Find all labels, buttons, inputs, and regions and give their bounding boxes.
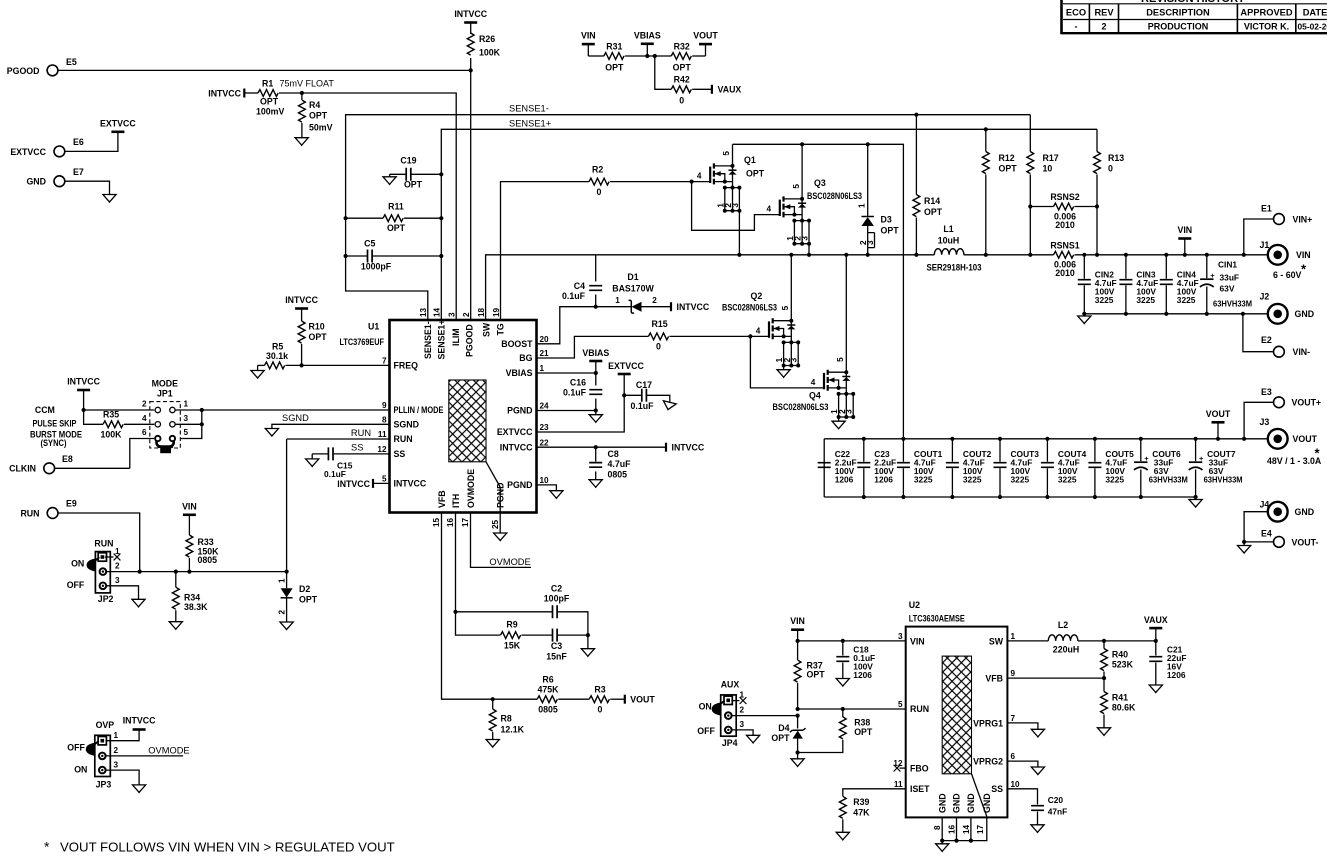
svg-text:3: 3: [790, 357, 799, 362]
svg-text:OPT: OPT: [673, 63, 692, 73]
svg-text:R41: R41: [1112, 693, 1128, 703]
wire R3 to VOUT tap: [610, 698, 625, 700]
svg-text:D1: D1: [627, 272, 638, 282]
wire U1 pin16 ITH down to R9: [456, 513, 501, 636]
wire Q1 gate to Q3 gate: [692, 182, 780, 231]
resistor RSNS1 0.006 2010: [1054, 251, 1074, 258]
wire Q2 gate to Q4 gate: [750, 336, 824, 388]
svg-text:20: 20: [540, 335, 550, 344]
wire U2 pin9 VFB line: [1007, 677, 1104, 679]
wire PGOOD E5 to R26/pin2 node: [58, 69, 471, 71]
ground (R4): [295, 138, 308, 146]
svg-text:OPT: OPT: [605, 63, 624, 73]
capacitor C22 2.2uF 100V 1206: [818, 463, 831, 468]
wire TG pin19 up and right to R2: [501, 182, 590, 320]
svg-text:VIN: VIN: [581, 31, 596, 41]
power tap VIN (U2): [791, 628, 804, 631]
wire Q3 drain up to VOUT rail: [801, 144, 803, 199]
power tap VBIAS: [641, 42, 654, 45]
svg-text:12.1K: 12.1K: [501, 725, 525, 735]
svg-text:18: 18: [477, 307, 486, 317]
svg-text:33uF: 33uF: [1220, 273, 1240, 283]
power tap VIN (R31): [582, 43, 595, 46]
wire R5 to U1 pin 7 FREQ: [286, 364, 390, 366]
wire U2 pin10 SS to C20: [1007, 789, 1037, 805]
node VFB/R8: [491, 697, 495, 701]
resistor R26 100K: [467, 33, 474, 55]
svg-text:INTVCC: INTVCC: [677, 302, 710, 312]
svg-text:RUN: RUN: [910, 704, 929, 714]
node R40/R41/VFB: [1102, 676, 1106, 680]
wire C3 to node: [557, 634, 588, 636]
wire pin25 to ground: [499, 513, 501, 534]
ground (C20): [1031, 825, 1044, 833]
wire BG pin21 to R15: [537, 336, 649, 358]
resistor R6 475K: [537, 696, 557, 703]
wire VIN tap down: [587, 44, 589, 56]
wire Q2 drain up to SW rail: [790, 255, 792, 321]
wire RUN row: [140, 571, 287, 573]
wire VIN tap to R33: [188, 515, 190, 535]
svg-text:VIN: VIN: [182, 501, 197, 511]
svg-text:PGND: PGND: [496, 483, 506, 508]
svg-text:Q2: Q2: [751, 291, 763, 301]
node C8 branch: [594, 445, 598, 449]
power tap VIN (CIN): [1178, 237, 1191, 240]
no-connect X (U2 FBO): [894, 765, 901, 772]
svg-text:OPT: OPT: [999, 164, 1018, 174]
node COUT1 bottom: [901, 495, 905, 499]
wire JP3 pin3 to ground: [106, 770, 139, 785]
svg-text:7: 7: [382, 357, 387, 366]
svg-text:CLKIN: CLKIN: [9, 464, 36, 474]
svg-text:*: *: [44, 839, 50, 855]
ground (D4): [791, 759, 804, 767]
wire to R31: [588, 55, 604, 57]
svg-text:9: 9: [382, 401, 387, 410]
wire JP4 pin2 to D4 node: [732, 715, 798, 717]
svg-text:0.1uF: 0.1uF: [563, 388, 587, 398]
wire RUN net to U1 pin 11: [287, 438, 390, 440]
svg-text:OPT: OPT: [746, 169, 765, 179]
resistor R38 OPT: [839, 717, 846, 739]
wire INTVCC tap to R10: [301, 309, 303, 322]
svg-text:OVMODE: OVMODE: [489, 557, 530, 567]
svg-text:3225: 3225: [1105, 475, 1124, 485]
terminal E3 (VOUT+): [1274, 397, 1285, 408]
wire C4 to BOOST node: [595, 295, 597, 307]
wire to C18: [842, 641, 844, 656]
diode D1 BAS170W: [629, 300, 634, 313]
wire C19 ground stem: [389, 174, 391, 177]
wire FBO stub: [900, 767, 906, 769]
node COUT6 bottom: [1139, 495, 1143, 499]
ground (C15): [306, 459, 319, 467]
svg-text:JP3: JP3: [96, 780, 112, 790]
svg-text:16: 16: [948, 824, 957, 834]
transistor Q4 (BSC028N06LS3) N-MOSFET symbol: [811, 357, 855, 419]
net tap VAUX (R42): [711, 85, 713, 94]
node Q2 drain/SW: [789, 253, 793, 257]
node C21/VAUX: [1154, 639, 1158, 643]
svg-text:30.1k: 30.1k: [266, 351, 288, 361]
svg-text:R5: R5: [272, 342, 283, 352]
wire COUT7 bottom lead: [1195, 470, 1197, 498]
svg-text:63HVH33M: 63HVH33M: [1213, 299, 1252, 309]
wire U1 pin24 PGND: [537, 410, 596, 412]
svg-text:INTVCC: INTVCC: [285, 295, 318, 305]
wire COUT2 top lead: [951, 439, 953, 462]
svg-text:0: 0: [597, 187, 602, 197]
wire D4 anode down: [797, 739, 799, 753]
power tap EXTVCC (C17): [618, 373, 631, 376]
svg-text:16: 16: [446, 517, 455, 527]
terminal E7 (GND): [54, 176, 65, 187]
svg-text:VOUT: VOUT: [693, 31, 718, 41]
svg-text:C5: C5: [364, 239, 375, 249]
resistor R40 523K: [1101, 649, 1108, 671]
svg-text:50mV: 50mV: [309, 123, 333, 133]
wire E8 to riser: [55, 467, 130, 469]
svg-text:14: 14: [962, 824, 971, 834]
node E4 branch: [1242, 540, 1246, 544]
svg-text:19: 19: [492, 307, 501, 317]
capacitor CIN2 4.7uF 100V 3225: [1078, 280, 1091, 285]
wire COUT1 bottom lead: [902, 468, 904, 497]
ground (R34): [169, 622, 182, 630]
svg-text:23: 23: [540, 423, 550, 432]
wire R10 to FREQ line: [301, 344, 303, 365]
svg-text:1206: 1206: [853, 670, 872, 680]
net tap INTVCC (R1 left): [243, 89, 245, 98]
wire R17 to RSNS2: [1029, 175, 1031, 207]
U1 exposed pad hatch: [449, 380, 486, 462]
svg-text:4: 4: [756, 326, 761, 335]
terminal E5 (PGOOD): [47, 65, 58, 76]
wire U2 GND pin x=942.2: [941, 817, 943, 840]
node COUT3 bottom: [998, 495, 1002, 499]
svg-text:EXTVCC: EXTVCC: [100, 119, 136, 129]
ground (Q2 source): [777, 370, 790, 378]
svg-text:2: 2: [740, 706, 745, 715]
svg-text:SER2918H-103: SER2918H-103: [927, 263, 982, 273]
svg-text:PRODUCTION: PRODUCTION: [1148, 22, 1209, 32]
svg-text:2010: 2010: [1055, 268, 1075, 278]
wire SENSE1- to C5: [346, 255, 368, 257]
resistor R17 10: [1027, 152, 1034, 174]
wire SW rail L1 to RSNS1: [964, 254, 1054, 256]
wire D3 to SW rail: [867, 248, 869, 255]
ground (Q4 source): [832, 421, 845, 429]
svg-text:FBO: FBO: [910, 764, 929, 774]
node C5 left: [344, 254, 348, 258]
resistor R15 0: [648, 333, 668, 340]
svg-text:J1: J1: [1260, 240, 1270, 250]
node C23 top: [862, 437, 866, 441]
svg-text:R42: R42: [674, 75, 690, 85]
svg-text:OPT: OPT: [309, 332, 328, 342]
svg-text:3225: 3225: [1058, 475, 1077, 485]
svg-text:22: 22: [540, 438, 550, 447]
wire SENSE1- to R14: [915, 115, 917, 195]
node JP1 pin3: [200, 422, 204, 426]
wire node to R6: [493, 698, 538, 700]
svg-text:Q1: Q1: [744, 155, 756, 165]
svg-text:ON: ON: [71, 559, 84, 569]
svg-text:PGOOD: PGOOD: [465, 324, 475, 357]
svg-text:D2: D2: [299, 584, 310, 594]
wire net SENSE1- rail: [346, 115, 1031, 256]
resistor RSNS2 0.006 2010: [1054, 203, 1074, 210]
svg-text:63HVH33M: 63HVH33M: [1149, 475, 1188, 485]
wire C18 to ground: [842, 663, 844, 679]
svg-text:80.6K: 80.6K: [1112, 703, 1136, 713]
svg-text:R9: R9: [506, 620, 517, 630]
svg-text:C17: C17: [636, 380, 652, 390]
resistor R5 30.1k: [265, 362, 285, 369]
wire R33 to RUN row: [188, 558, 190, 572]
revision history table: [1062, 0, 1327, 34]
wire R1 to R4 node: [279, 92, 302, 94]
svg-text:VICTOR K.: VICTOR K.: [1244, 22, 1289, 32]
wire bus to ground: [941, 841, 943, 844]
svg-text:475K: 475K: [537, 685, 559, 695]
power tap INTVCC (R26): [464, 21, 477, 24]
svg-text:OVMODE: OVMODE: [148, 745, 189, 755]
svg-text:U2: U2: [909, 600, 920, 610]
power tap INTVCC (JP1): [77, 389, 90, 392]
svg-text:47K: 47K: [853, 808, 870, 818]
svg-text:8: 8: [933, 825, 942, 830]
resistor R39 47K: [839, 796, 846, 818]
svg-text:U1: U1: [368, 322, 379, 332]
svg-text:GND: GND: [937, 793, 947, 813]
wire E7 to ground: [65, 181, 109, 194]
svg-text:OPT: OPT: [404, 180, 423, 190]
wire E4 node to ground: [1243, 542, 1245, 546]
wire VIN rail RSNS1 to J1: [1075, 254, 1268, 256]
wire SENSE1+ corner down to R13: [1096, 129, 1098, 151]
wire C2 to C3 node: [557, 612, 588, 635]
resistor R34 38.3K: [172, 587, 179, 609]
wire SGND to U1 pin 8: [272, 424, 390, 428]
ground (R8): [486, 740, 499, 748]
wire VIN node to R37: [797, 641, 799, 660]
ground (JP3): [133, 785, 146, 793]
capacitor C15 0.1uF: [328, 447, 333, 460]
svg-text:PLLIN / MODE: PLLIN / MODE: [394, 405, 444, 415]
wire R31 to VBIAS node: [625, 55, 671, 57]
svg-text:2: 2: [142, 400, 147, 409]
wire to E1: [1244, 219, 1274, 255]
svg-text:PULSE SKIP: PULSE SKIP: [33, 419, 77, 429]
wire to E2: [1243, 314, 1274, 352]
svg-text:6: 6: [142, 428, 147, 437]
svg-text:OPT: OPT: [299, 595, 318, 605]
svg-text:0805: 0805: [608, 470, 628, 480]
wire gnd to C15: [312, 453, 328, 455]
wire C15 to U1 pin 12 SS: [333, 453, 390, 455]
svg-text:47nF: 47nF: [1048, 807, 1068, 817]
svg-text:R11: R11: [388, 202, 404, 212]
wire COUT ground rail: [824, 496, 1195, 498]
svg-text:10: 10: [1043, 164, 1053, 174]
svg-text:3225: 3225: [1095, 295, 1114, 305]
svg-text:R34: R34: [184, 593, 200, 603]
power tap EXTVCC (E6): [111, 131, 124, 134]
wire R4 to ground: [301, 123, 303, 138]
svg-text:1206: 1206: [1167, 670, 1186, 680]
resistor R2 0: [589, 178, 609, 185]
svg-text:4.7uF: 4.7uF: [608, 459, 632, 469]
svg-text:GND: GND: [1295, 309, 1315, 319]
wire to C21: [1155, 641, 1157, 656]
wire C23 bottom lead: [863, 468, 865, 497]
node R33/RUN: [187, 570, 191, 574]
node D2/RUN riser: [285, 570, 289, 574]
terminal E1 (VIN+): [1274, 214, 1285, 225]
net tap VOUT (R3): [624, 695, 626, 704]
U2 exposed pad hatch: [942, 656, 971, 774]
wire COUT bank left edge (C22): [823, 439, 825, 497]
svg-text:RUN: RUN: [20, 508, 39, 518]
svg-text:D4: D4: [778, 723, 789, 733]
node R14/SW: [914, 253, 918, 257]
wire COUT gnd stem: [1195, 497, 1197, 500]
capacitor C23 2.2uF 100V 1206: [857, 463, 870, 468]
node U2 gnd bus: [954, 839, 958, 843]
svg-text:R6: R6: [542, 675, 553, 685]
svg-text:R40: R40: [1112, 650, 1128, 660]
node SENSE1-/R14: [914, 113, 918, 117]
capacitor C17 0.1uF: [642, 389, 647, 402]
node BOOST/C4/D1: [594, 305, 598, 309]
svg-text:9: 9: [1011, 669, 1016, 678]
svg-text:1: 1: [115, 547, 120, 556]
svg-text:R39: R39: [853, 797, 869, 807]
wire INTVCC tap to CCM line: [83, 390, 85, 410]
svg-text:INTVCC: INTVCC: [672, 443, 705, 453]
wire L2 to VAUX: [1078, 640, 1156, 642]
svg-text:3: 3: [184, 414, 189, 423]
svg-text:3: 3: [801, 236, 810, 241]
svg-text:SENSE1-: SENSE1-: [509, 104, 549, 114]
terminal E4 (VOUT-): [1274, 537, 1285, 548]
wire CIN ground rail to J2: [1084, 313, 1268, 315]
ground (C19): [383, 177, 396, 185]
no-connect X (JP2 pin1): [114, 554, 121, 561]
capacitor C19 OPT: [406, 168, 411, 181]
wire U2 pad diagonal: [972, 774, 987, 817]
capacitor C4 0.1uF: [589, 286, 602, 291]
svg-text:BOOST: BOOST: [501, 339, 533, 349]
wire R2 to Q1 gate: [610, 181, 710, 183]
svg-text:10: 10: [540, 476, 550, 485]
wire CIN2 bottom lead: [1083, 285, 1085, 314]
svg-text:E1: E1: [1261, 204, 1272, 214]
wire U2 pin1 SW to L2: [1007, 640, 1048, 642]
svg-text:OPT: OPT: [807, 670, 826, 680]
capacitor CIN4 4.7uF 100V 3225: [1160, 280, 1173, 285]
wire RUN riser up to U1 pin11 net: [286, 439, 288, 572]
svg-text:3: 3: [447, 312, 456, 317]
node VIN tap: [1183, 253, 1187, 257]
svg-text:OPT: OPT: [309, 111, 328, 121]
JP3 shorting handle wedge: [86, 743, 95, 756]
wire node to R4: [301, 93, 303, 100]
wire SENSE1+ to R12: [985, 129, 987, 151]
node Q1 gate / Q3 branch: [690, 180, 694, 184]
wire JP1 pin1 out: [176, 409, 202, 411]
ground (U2): [936, 844, 949, 852]
ground (C16/PGND24): [589, 415, 602, 423]
wire gnd to R5: [258, 364, 265, 366]
svg-text:5: 5: [898, 700, 903, 709]
svg-text:R14: R14: [924, 196, 940, 206]
svg-text:VIN-: VIN-: [1293, 347, 1311, 357]
svg-text:VAUX: VAUX: [1144, 615, 1168, 625]
svg-text:ILIM: ILIM: [451, 328, 461, 346]
svg-text:75mV FLOAT: 75mV FLOAT: [280, 79, 335, 89]
wire RUN line to U2 pin5: [798, 708, 906, 710]
wire SW rail to C4: [595, 255, 597, 282]
wire BOOST pin20 to C4/D1 node: [537, 307, 596, 344]
wire JP4 pin3 to ground: [732, 730, 753, 735]
capacitor COUT5 4.7uF 100V 3225: [1088, 463, 1101, 468]
jack J2 GND banana: [1268, 304, 1288, 324]
wire CIN3 top lead: [1125, 255, 1127, 279]
wire R13 to RSNS2 right: [1096, 175, 1098, 207]
wire node to C8: [595, 447, 597, 461]
svg-text:2: 2: [1101, 22, 1106, 32]
wire JP3 pin2 OVMODE stub: [106, 755, 183, 757]
node VOUT tap: [1216, 437, 1220, 441]
wire R5 ground stem: [257, 365, 259, 370]
svg-text:VIN: VIN: [1296, 250, 1311, 260]
resistor R13 0: [1094, 152, 1101, 174]
JP4 shorting handle wedge: [712, 703, 721, 716]
svg-text:C16: C16: [570, 378, 586, 388]
net tap INTVCC (D1): [670, 302, 672, 311]
svg-text:2010: 2010: [1055, 220, 1075, 230]
svg-text:R2: R2: [592, 165, 603, 175]
wire Q2 source to ground: [783, 366, 785, 370]
wire R35 to JP1 pin 4: [124, 423, 154, 425]
node VBIAS/R31: [645, 54, 649, 58]
svg-text:C4: C4: [574, 281, 585, 291]
wire COUT4 top lead: [1046, 439, 1048, 462]
node D4/R38 bottom: [796, 750, 800, 754]
svg-text:0: 0: [656, 342, 661, 352]
ground (JP2): [132, 599, 145, 607]
wire SENSE1- to R11: [346, 217, 383, 219]
power tap INTVCC (R10): [295, 307, 308, 310]
svg-text:E9: E9: [66, 499, 77, 509]
svg-text:R13: R13: [1108, 153, 1124, 163]
capacitor CIN1 33uF 63V (polarized): [1200, 278, 1213, 280]
svg-text:4: 4: [811, 378, 816, 387]
svg-text:VIN+: VIN+: [1293, 214, 1313, 224]
node COUT1 top: [901, 437, 905, 441]
wire node to R8: [492, 699, 494, 709]
svg-text:5: 5: [792, 184, 801, 189]
wire JP2 pin2 to RUN row: [107, 571, 140, 573]
node Q3 source/SW: [807, 253, 811, 257]
svg-text:SW: SW: [482, 322, 492, 337]
svg-text:11: 11: [378, 430, 387, 439]
node COUT2 top: [950, 437, 954, 441]
svg-text:VPRG2: VPRG2: [973, 757, 1003, 767]
